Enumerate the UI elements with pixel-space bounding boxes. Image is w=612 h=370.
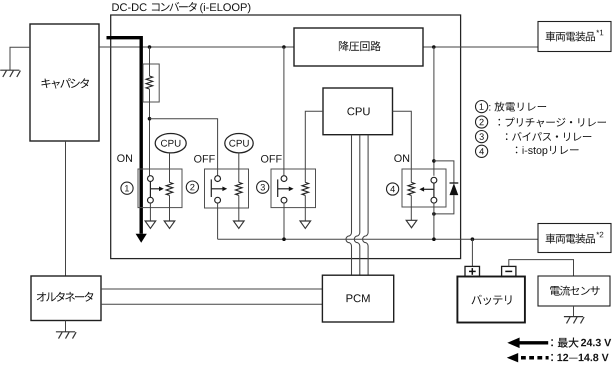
CPU driver ellipse (relay 1) [155,134,186,153]
label OFF (relay2) [194,155,215,163]
PCM box [322,275,393,322]
relay3 contact to bus lead [283,203,285,239]
wire alternator-PCM lower [101,303,322,305]
ground (relay2 coil) [234,221,245,228]
label ON (relay1) [117,154,132,162]
relay 2 box [205,169,249,208]
wire CPU-PCM signal 1 (with crossover hop) [346,135,352,276]
CPU driver ellipse (relay 2) [225,134,253,153]
relay 2 contact lever (open) [210,179,212,197]
node relay4 bottom (diode branch) [432,212,436,216]
designator circled 3 [257,181,269,193]
relay1 contact to ground lead [149,203,151,221]
node bus/relay4 [432,237,436,241]
vehicle electrical components *2 box [538,224,611,253]
relay 2 coil [236,182,243,195]
wire: top rail step-down circuit to vehicle electrics 1 [423,46,538,48]
label ON (relay4) [394,154,409,162]
legend circled 1 : discharge relay [476,101,488,113]
wire battery - to current sensor [509,260,574,276]
capacitor unit box [30,24,99,141]
wire resistor to relay1 contact [149,89,151,176]
legend circled 4 : i-stop relay [476,145,488,157]
relay 3 box [271,169,316,208]
chassis ground (current sensor) [564,316,583,318]
DC-DC converter enclosure box [111,15,461,259]
alternator ground lead [65,321,67,332]
wire CPU-PCM signal 2 (with crossover hop) [354,135,359,276]
relay4 contact to bus lead [433,203,435,239]
relay 1 actuation arrow [150,188,160,190]
node relay4 top (diode branch) [432,159,436,163]
relay 4 contact lever (closed) [433,183,435,197]
designator circled 2 [186,181,198,193]
alternator box [31,276,101,321]
ground (relay3 coil) [300,221,311,228]
relay 4 box [402,169,446,207]
node: resistor output junction [148,117,152,121]
relay 1 coil [166,182,173,195]
relay3 coil to ground lead [304,195,306,221]
relay 2 contact terminals [215,176,221,182]
legend solid arrow: max 24.3V [507,338,519,349]
wire CPU-PCM signal 3 (with crossover hop) [363,135,369,276]
designator circled 1 [121,182,133,194]
node: rail tap to precharge resistor [148,45,152,49]
relay 4 actuation arrow [423,188,434,190]
legend circled 3 : bypass relay [476,131,488,143]
current sensor ground lead [573,306,575,317]
thick solid flow arrow: max 24.3V path [107,38,142,234]
ground (relay4 coil) [406,220,417,227]
node: rail tap to i-stop relay [432,45,436,49]
wire capacitor to chassis ground [10,47,30,70]
step-down circuit box (降圧回路) [294,28,423,66]
wire CPU right to i-stop relay coil [393,111,412,182]
wire CPU left to bypass relay coil [305,111,323,182]
battery box [457,277,525,323]
legend circled 2 : precharge relay [476,116,488,128]
battery + terminal [465,266,480,276]
relay 3 contact terminals [281,176,287,182]
wire capacitor bottom to alternator [65,141,67,276]
wire alternator-PCM upper [101,288,322,290]
wire CPU ellipse to relay1 coil [169,153,171,183]
node bus/relay3 [282,237,286,241]
wire: lower bus to vehicle electrics 2 [218,238,538,240]
relay 4 contact terminals [431,177,437,183]
relay4 contact top lead from rail [433,47,435,176]
wire junction to relay2 contact [150,119,218,176]
relay 4 coil [408,182,415,195]
relay3 contact top lead from rail [283,47,285,176]
label: DC-DC converter (i-ELOOP) title [112,2,250,13]
node: rail tap to bypass relay [282,45,286,49]
wire: top rail capacitor to step-down circuit [99,46,294,48]
ground (relay1 coil) [164,221,175,228]
chassis ground (capacitor) [0,69,19,71]
battery - terminal [502,266,516,276]
diode D1 (parallel to relay4 contact) [434,161,454,183]
relay 3 contact lever (open) [277,179,279,197]
relay 1 contact lever (closed) [149,182,151,198]
ground (relay1 contact) [145,221,156,228]
legend dashed arrow: 12-14.8V [507,353,518,362]
wire CPU ellipse to relay2 coil [238,153,240,183]
node bus/battery [471,237,475,241]
relay1 coil to ground lead [169,195,171,221]
wire rail to resistor [149,47,151,76]
relay2 coil to ground lead [238,195,240,221]
relay 1 box [138,169,182,208]
chassis ground (alternator) [56,331,75,333]
relay4 coil to ground lead [410,195,412,220]
wire bus to battery + terminal [471,239,473,266]
relay 3 coil [302,182,309,195]
relay 2 actuation arrow [211,188,223,190]
current sensor box [538,276,610,306]
precharge resistor enclosure [143,64,159,102]
relay 1 contact terminals [148,176,154,182]
designator circled 4 [387,183,399,195]
relay2 contact to bus lead [217,203,219,239]
CPU U1 box [323,88,393,135]
relay 3 actuation arrow [278,188,290,190]
label OFF (relay3) [261,155,282,163]
vehicle electrical components *1 box [538,22,611,52]
resistor R (precharge/discharge) [146,76,153,89]
